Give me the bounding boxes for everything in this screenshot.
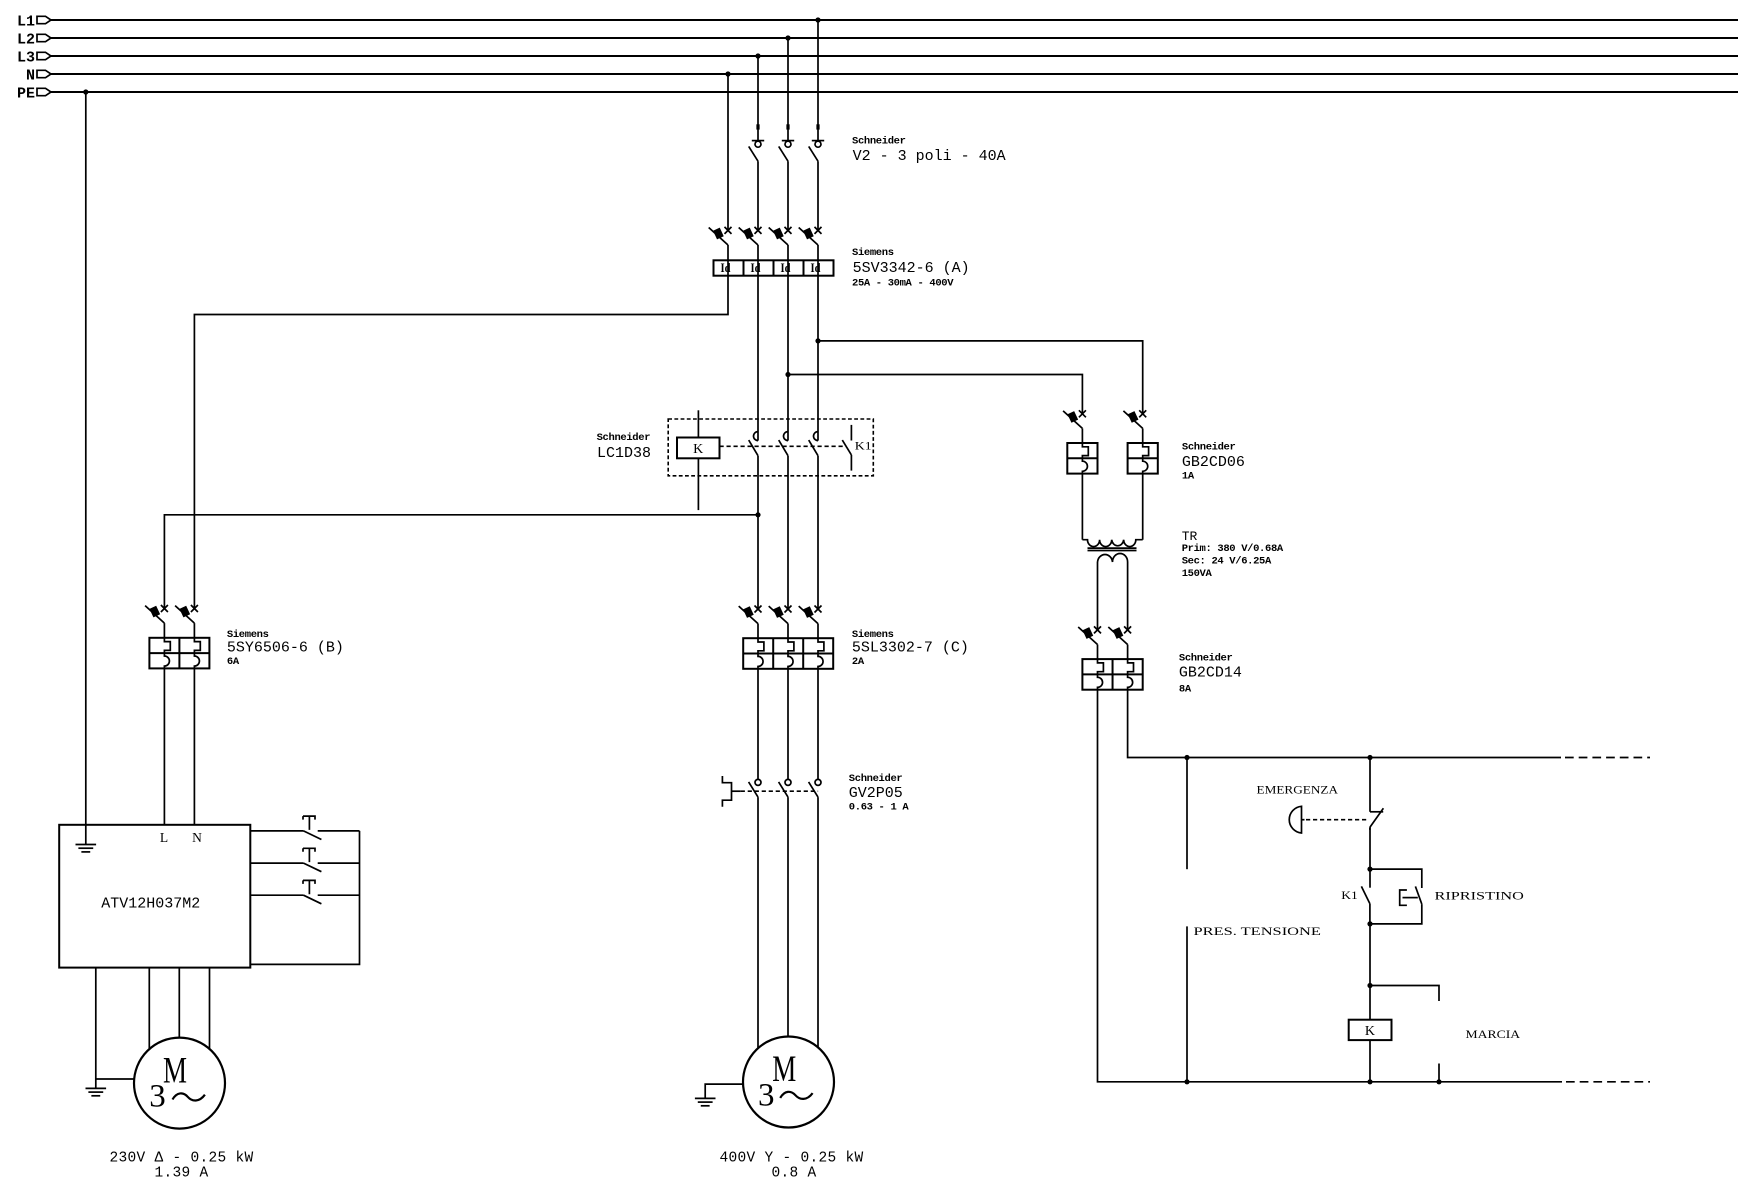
svg-text:3: 3 xyxy=(758,1077,775,1113)
motor M1 xyxy=(134,1038,225,1129)
wire pres tensione upper xyxy=(1186,758,1188,870)
wire GB06 p1 to TR xyxy=(1081,474,1083,540)
node marcia bottom xyxy=(1436,1079,1441,1084)
svg-text:V2 - 3 poli - 40A: V2 - 3 poli - 40A xyxy=(853,148,1006,165)
contactor K1 linkage xyxy=(720,445,847,447)
wire L2 RCD to contactor xyxy=(787,276,789,441)
wire control top rail xyxy=(1128,690,1650,758)
wire K1 to K coil xyxy=(1369,924,1371,1020)
breaker GB2CD06 contact pole 1 xyxy=(1063,410,1086,428)
svg-text:5SL3302-7 (C): 5SL3302-7 (C) xyxy=(852,640,969,657)
contactor K1 coil stub bottom xyxy=(697,458,699,510)
breaker GB2CD14 internals pole 2 xyxy=(1128,659,1134,690)
breaker GB2CD06 internals pole 2 xyxy=(1143,443,1149,474)
node N tap xyxy=(725,71,730,76)
wire L2 to GB2CD06 p1 xyxy=(788,375,1082,414)
contactor K1 contact L1 xyxy=(809,432,818,456)
wire emergenza to K1 xyxy=(1369,827,1371,869)
node L2 tap xyxy=(785,35,790,40)
svg-text:0.8 A: 0.8 A xyxy=(771,1166,816,1182)
switch V2 pole L1 xyxy=(809,141,825,162)
breaker GB2CD14 contact pole 1 xyxy=(1078,626,1101,644)
transformer TR primary xyxy=(1082,540,1142,547)
wire B p1 to ATV L xyxy=(163,668,165,824)
svg-text:230V Δ - 0.25 kW: 230V Δ - 0.25 kW xyxy=(109,1151,253,1167)
breaker C internals pole 1 xyxy=(758,638,764,669)
wire ATV U out xyxy=(148,968,150,1050)
wire emergenza upper xyxy=(1369,758,1371,812)
wire L1 V2 to RCD xyxy=(817,161,819,230)
node K1 branch top xyxy=(1367,867,1372,872)
wire RCD pole 2 blade to box xyxy=(757,245,759,260)
svg-text:1A: 1A xyxy=(1182,470,1195,482)
ground motor M1 xyxy=(86,1088,107,1095)
GV2 contact L3 xyxy=(749,779,761,797)
contact RIPRISTINO NO xyxy=(1415,886,1421,904)
wire GB14 p1 blade to box xyxy=(1097,645,1099,660)
breaker C internals pole 3 xyxy=(818,638,824,669)
breaker B contact pole 2 xyxy=(175,605,198,623)
contactor K1 aux contact xyxy=(842,425,851,471)
wire L3 RCD to contactor xyxy=(757,276,759,441)
svg-text:ATV12H037M2: ATV12H037M2 xyxy=(101,895,200,912)
svg-text:RIPRISTINO: RIPRISTINO xyxy=(1435,889,1525,903)
transformer TR secondary xyxy=(1098,554,1128,563)
breaker GB2CD06 contact pole 2 xyxy=(1123,410,1146,428)
wire C p3 to GV2 xyxy=(817,669,819,780)
breaker GB2CD06 box pole 2 xyxy=(1128,443,1158,474)
power rail L1 xyxy=(17,13,1738,30)
wire GV2 L1 to motor xyxy=(817,797,819,1047)
wire L2 contactor to C breaker xyxy=(787,456,789,609)
terminal nub L2 xyxy=(786,124,789,129)
wire GB06 p1 blade to box xyxy=(1081,428,1083,443)
node emergenza top xyxy=(1367,755,1372,760)
node pres tensione bottom xyxy=(1184,1079,1189,1084)
breaker B box xyxy=(149,638,209,669)
node pres tensione top xyxy=(1184,755,1189,760)
svg-text:150VA: 150VA xyxy=(1182,568,1213,580)
svg-text:L2: L2 xyxy=(17,31,35,48)
power rail N xyxy=(26,67,1738,84)
breaker C internals pole 2 xyxy=(788,638,794,669)
svg-text:K: K xyxy=(1365,1024,1375,1039)
wire ATV PE out xyxy=(95,968,97,1089)
wire L1 to GB2CD06 p2 xyxy=(818,341,1143,414)
wire L3 tap to left feeder xyxy=(164,515,758,609)
contactor K1 coil box K xyxy=(677,438,720,459)
wire K coil to rail xyxy=(1369,1040,1371,1082)
pushbutton EMERGENZA head xyxy=(1289,806,1367,833)
svg-text:K1: K1 xyxy=(1341,888,1358,902)
svg-text:Sec: 24 V/6.25A: Sec: 24 V/6.25A xyxy=(1182,555,1272,567)
svg-text:Schneider: Schneider xyxy=(849,773,903,785)
wire C p2 to GV2 xyxy=(787,669,789,780)
node PE tap xyxy=(83,89,88,94)
wire C p1 blade to box xyxy=(757,624,759,639)
breaker GB2CD14 box xyxy=(1082,659,1142,690)
svg-text:PRES. TENSIONE: PRES. TENSIONE xyxy=(1194,924,1321,938)
drive relay contact 1 xyxy=(250,816,359,839)
svg-text:K: K xyxy=(693,442,703,457)
svg-text:Schneider: Schneider xyxy=(1182,442,1236,454)
wire ATV PE to motor xyxy=(96,1078,134,1080)
wire marcia branch top xyxy=(1370,986,1439,1002)
wire ATV W out xyxy=(209,968,211,1049)
svg-text:5SV3342-6 (A): 5SV3342-6 (A) xyxy=(853,260,970,277)
wire K1 upper stub xyxy=(1369,869,1371,888)
ground ATV12 internal xyxy=(76,825,97,852)
drive relay contact 3 xyxy=(250,880,359,903)
wire L3 contactor to C breaker xyxy=(757,456,759,609)
breaker GB2CD14 internals pole 1 xyxy=(1098,659,1104,690)
terminal nub L3 xyxy=(756,124,759,129)
breaker C box xyxy=(743,638,833,669)
wire GB14 p2 blade to box xyxy=(1127,645,1129,660)
wire N to left feeder xyxy=(194,276,728,609)
svg-text:K1: K1 xyxy=(855,441,872,453)
breaker C contact pole 1 xyxy=(739,606,762,624)
wire GV2 L2 to motor xyxy=(787,797,789,1036)
power rail L2 xyxy=(17,31,1738,48)
wire RCD pole 4 blade to box xyxy=(817,245,819,260)
GV2 contact L1 xyxy=(809,779,821,797)
wire L3 drop to V2 xyxy=(757,56,759,141)
contactor K1 contact L3 xyxy=(749,432,758,456)
wire pres tensione lower xyxy=(1186,926,1188,1081)
node K1 branch bottom xyxy=(1367,921,1372,926)
contactor K1 coil stub top xyxy=(697,410,699,437)
RCD A contact pole 2 xyxy=(739,227,762,245)
breaker B contact pole 1 xyxy=(145,605,168,623)
svg-text:L3: L3 xyxy=(17,49,35,66)
wire C p3 blade to box xyxy=(817,624,819,639)
svg-text:PE: PE xyxy=(17,85,35,102)
svg-text:Id: Id xyxy=(811,261,821,275)
svg-text:3: 3 xyxy=(149,1078,166,1114)
GV2 contact L2 xyxy=(779,779,791,797)
node L3 left feeder tap xyxy=(755,512,760,517)
wire C p2 blade to box xyxy=(787,624,789,639)
wire ripristino branch bottom xyxy=(1370,904,1422,924)
breaker C contact pole 2 xyxy=(769,606,792,624)
wire ripristino branch top xyxy=(1370,869,1422,888)
contactor K1 dashed enclosure xyxy=(668,419,873,476)
wire control bottom rail xyxy=(1098,690,1651,1082)
svg-text:M: M xyxy=(163,1051,187,1092)
wire L2 V2 to RCD xyxy=(787,161,789,230)
wire K1 lower stub xyxy=(1369,904,1371,924)
wire TR sec left to GB14 xyxy=(1097,562,1099,630)
RCD A Id box xyxy=(714,260,834,275)
wire L1 contactor to C breaker xyxy=(817,456,819,609)
svg-text:Schneider: Schneider xyxy=(1179,653,1233,665)
node L2 branch xyxy=(785,372,790,377)
power rail L3 xyxy=(17,49,1738,66)
svg-text:Prim: 380 V/0.68A: Prim: 380 V/0.68A xyxy=(1182,543,1284,555)
wire B p2 to ATV N xyxy=(193,668,195,824)
svg-text:L: L xyxy=(160,830,168,845)
node L3 tap xyxy=(755,53,760,58)
breaker B internals pole 2 xyxy=(194,638,200,669)
wire L1 RCD to contactor xyxy=(817,276,819,441)
svg-text:400V Y - 0.25 kW: 400V Y - 0.25 kW xyxy=(719,1151,863,1167)
wire B p1 blade to box xyxy=(163,623,165,638)
motor M2 ground wire xyxy=(705,1084,743,1098)
svg-text:N: N xyxy=(192,830,202,845)
contact K1 NO xyxy=(1361,886,1370,903)
node L1 branch xyxy=(815,338,820,343)
wire drive relay collector xyxy=(250,831,359,965)
terminal nub L1 xyxy=(816,124,819,129)
svg-text:6A: 6A xyxy=(227,656,240,668)
RCD A contact pole 4 xyxy=(799,227,822,245)
drive relay contact 2 xyxy=(250,848,359,871)
svg-text:L1: L1 xyxy=(17,13,35,30)
breaker GB2CD06 box pole 1 xyxy=(1067,443,1097,474)
svg-text:25A - 30mA - 400V: 25A - 30mA - 400V xyxy=(852,277,954,289)
svg-text:1.39 A: 1.39 A xyxy=(154,1166,208,1182)
breaker GB2CD14 contact pole 2 xyxy=(1108,626,1131,644)
svg-text:Schneider: Schneider xyxy=(852,136,906,148)
coil K xyxy=(1349,1020,1392,1040)
wire B p2 blade to box xyxy=(193,623,195,638)
ground motor M2 xyxy=(695,1098,716,1105)
svg-text:5SY6506-6 (B): 5SY6506-6 (B) xyxy=(227,640,344,657)
svg-text:8A: 8A xyxy=(1179,683,1192,695)
svg-text:Id: Id xyxy=(781,261,791,275)
RCD A contact pole 3 xyxy=(769,227,792,245)
svg-text:M: M xyxy=(772,1049,796,1090)
drive ATV12 box xyxy=(59,825,250,968)
svg-text:2A: 2A xyxy=(852,656,865,668)
wire RCD pole 3 blade to box xyxy=(787,245,789,260)
wire marcia branch bottom xyxy=(1438,1064,1440,1082)
breaker B internals pole 1 xyxy=(164,638,170,669)
wire C p1 to GV2 xyxy=(757,669,759,780)
wire GV2 L3 to motor xyxy=(757,797,759,1048)
wire L1 drop to V2 xyxy=(817,20,819,141)
wire L3 V2 to RCD xyxy=(757,161,759,230)
svg-text:Siemens: Siemens xyxy=(852,247,894,259)
wire PE drop xyxy=(85,92,87,825)
motor M2 xyxy=(743,1037,834,1128)
svg-text:Id: Id xyxy=(721,261,731,275)
node K coil bottom xyxy=(1367,1079,1372,1084)
svg-text:GB2CD14: GB2CD14 xyxy=(1179,665,1242,682)
wire L2 drop to V2 xyxy=(787,38,789,141)
switch V2 pole L3 xyxy=(749,141,765,162)
svg-text:Id: Id xyxy=(751,261,761,275)
node L1 tap xyxy=(815,17,820,22)
svg-text:Schneider: Schneider xyxy=(597,432,651,444)
transformer TR core xyxy=(1088,548,1137,550)
svg-text:MARCIA: MARCIA xyxy=(1466,1027,1521,1041)
wire RCD pole 1 blade to box xyxy=(727,245,729,260)
svg-text:0.63 - 1 A: 0.63 - 1 A xyxy=(849,802,910,814)
RCD A contact pole 1 xyxy=(709,227,732,245)
breaker GB2CD06 internals pole 1 xyxy=(1082,443,1088,474)
node marcia branch xyxy=(1367,983,1372,988)
svg-text:N: N xyxy=(26,67,35,84)
switch V2 pole L2 xyxy=(779,141,795,162)
pushbutton RIPRISTINO actuator xyxy=(1400,890,1418,905)
wire TR sec right to GB14 xyxy=(1127,562,1129,630)
wire ATV V out xyxy=(178,968,180,1038)
wire GB06 p2 to TR xyxy=(1142,474,1144,540)
svg-text:EMERGENZA: EMERGENZA xyxy=(1257,783,1339,797)
wire N drop to RCD xyxy=(727,74,729,230)
svg-text:GB2CD06: GB2CD06 xyxy=(1182,454,1245,471)
breaker C contact pole 3 xyxy=(799,606,822,624)
contactor K1 contact L2 xyxy=(779,432,788,456)
wire GB06 p2 blade to box xyxy=(1142,428,1144,443)
svg-text:LC1D38: LC1D38 xyxy=(597,445,651,462)
contact EMERGENZA NC xyxy=(1370,808,1384,830)
GV2 trip mechanism xyxy=(722,776,818,807)
svg-text:GV2P05: GV2P05 xyxy=(849,785,903,802)
power rail PE xyxy=(17,85,1738,102)
